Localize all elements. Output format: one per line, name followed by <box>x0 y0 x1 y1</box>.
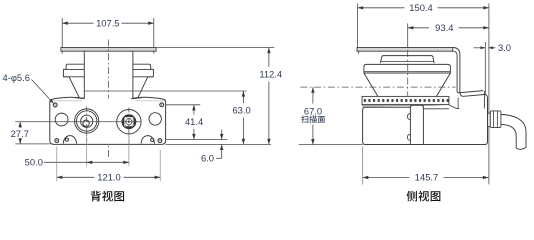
svg-text:41.4: 41.4 <box>185 116 203 127</box>
3.0 extension tick <box>484 42 486 95</box>
mounting hole 1 (4-dia5.6) <box>53 103 57 107</box>
power connector center <box>83 120 89 126</box>
dimension 67.0 arrows <box>311 87 314 93</box>
body bottom extension line <box>299 144 363 146</box>
left clamp lever <box>63 64 84 77</box>
145.7 extension lines <box>362 147 364 185</box>
side plate end tick <box>358 51 360 53</box>
lower extension line y139.5 <box>166 139 228 141</box>
head neck right line <box>132 51 134 99</box>
body mid top edge <box>423 108 449 110</box>
scan plane line / 63.0 extension <box>84 90 246 92</box>
121.0 extension lines <box>56 147 58 182</box>
dimension 107.5 arrows <box>62 22 68 25</box>
150.4 extension left <box>357 3 359 47</box>
label back view <box>91 191 101 202</box>
scan plane centerline (side view) <box>300 86 455 88</box>
right clamp strut <box>138 77 148 98</box>
left clamp strut <box>69 77 79 98</box>
top plate extension line to 112.4 <box>156 47 274 49</box>
93.4 extension left <box>407 23 409 50</box>
dimension 121.0 arrows <box>57 176 63 179</box>
optical window band <box>362 96 449 104</box>
top screws extension line <box>166 104 201 106</box>
cable outer curve <box>501 114 526 147</box>
strut foot left <box>76 98 85 99</box>
svg-text:4-φ5.6: 4-φ5.6 <box>3 72 30 83</box>
bracket top plate (back view) <box>61 48 156 52</box>
dimension 41.4 arrows <box>192 105 195 111</box>
ethernet connector outer ring <box>117 110 141 134</box>
mounting hole 2 (4-dia5.6) <box>160 103 164 107</box>
bracket top plate (side view) <box>357 48 453 52</box>
left bottom arch <box>63 136 76 144</box>
dimension 107.5 line <box>62 22 93 24</box>
svg-text:150.4: 150.4 <box>409 2 432 13</box>
body rear top edge <box>457 108 460 110</box>
50.0 extension lines <box>86 134 88 167</box>
right side hole <box>149 113 161 125</box>
body top edge under window <box>410 106 423 108</box>
right clamp lever <box>133 64 154 77</box>
base body (back view) <box>50 97 166 144</box>
body bevel edge <box>449 105 457 109</box>
svg-text:121.0: 121.0 <box>97 172 120 183</box>
bottom shared extension line <box>166 143 271 145</box>
dimension 145.7 arrows <box>363 176 369 179</box>
leader line 4-dia5.6 <box>32 80 53 103</box>
long right extension line <box>488 3 490 184</box>
dimension 27.7 bottom extension <box>15 143 50 145</box>
dimension 3.0 arrows <box>481 46 486 49</box>
svg-text:50.0: 50.0 <box>25 156 43 167</box>
cable inner curve <box>501 124 516 148</box>
label side view <box>407 191 417 202</box>
dimension 145.7 line <box>363 177 410 179</box>
connector centerline horizontal <box>15 121 141 123</box>
dimension 121.0 line <box>57 176 95 178</box>
head neck left line <box>83 51 85 99</box>
dimension 112.4 line <box>268 48 270 67</box>
svg-text:6.0: 6.0 <box>201 153 214 164</box>
vertical centerline (back view) <box>107 40 109 159</box>
dimension 63.0 arrows <box>242 91 245 97</box>
left side hole <box>55 113 68 126</box>
cable end <box>516 147 526 149</box>
dimension 6.0 arrows <box>221 130 223 140</box>
dimension 112.4 arrows <box>267 48 270 54</box>
dimension 93.4 line <box>408 27 429 29</box>
vertical centerline (side view) <box>407 50 409 104</box>
scanner body (side view) <box>363 105 487 144</box>
connector vertical crosshairs <box>86 107 88 145</box>
cable gland nut <box>490 111 501 128</box>
top plate end ticks <box>61 51 63 53</box>
power connector outer rings <box>75 109 99 133</box>
dimension 27.7 arrows <box>19 122 22 128</box>
latch right line <box>422 106 424 144</box>
dimension 150.4 arrows <box>358 6 364 9</box>
svg-text:112.4: 112.4 <box>259 69 282 80</box>
dimension 50.0 arrows <box>87 161 93 164</box>
head bezel <box>364 64 451 73</box>
right bottom arch <box>141 136 154 144</box>
svg-text:27.7: 27.7 <box>11 128 29 139</box>
base faint inner edge <box>52 100 82 102</box>
latch left line <box>409 106 411 144</box>
head dome cap <box>380 56 434 64</box>
bracket inner contour <box>453 51 483 93</box>
strut foot right <box>133 98 142 99</box>
dimension 67.0 line <box>312 87 314 104</box>
svg-text:63.0: 63.0 <box>232 105 250 116</box>
dimension 27.7 line <box>19 122 21 128</box>
mounting hole 3 (4-dia5.6) <box>55 139 59 143</box>
head cone left <box>364 73 378 96</box>
power connector inner ring <box>81 115 93 127</box>
cable gland collar <box>488 113 491 126</box>
dimension 107.5 extension line right <box>153 18 155 48</box>
bracket outer contour <box>453 48 488 106</box>
dimension 3.0 lines <box>474 47 486 49</box>
svg-text:145.7: 145.7 <box>415 172 438 183</box>
dimension 63.0 line <box>242 91 244 103</box>
head cone right <box>437 73 451 96</box>
dimension 6.0 leader <box>216 157 222 159</box>
svg-text:67.0: 67.0 <box>304 105 322 116</box>
ethernet connector body <box>123 116 135 128</box>
label scan plane <box>301 116 308 123</box>
dimension 150.4 line <box>358 7 405 9</box>
svg-text:93.4: 93.4 <box>435 22 453 33</box>
svg-text:3.0: 3.0 <box>498 42 511 53</box>
dimension 50.0 line <box>44 161 129 163</box>
dimension 41.4 line <box>193 105 195 115</box>
dimension 107.5 extension line left <box>61 18 63 48</box>
mounting hole 4 (4-dia5.6) <box>158 139 162 143</box>
svg-text:107.5: 107.5 <box>96 17 119 28</box>
dimension 93.4 arrows <box>408 26 414 29</box>
